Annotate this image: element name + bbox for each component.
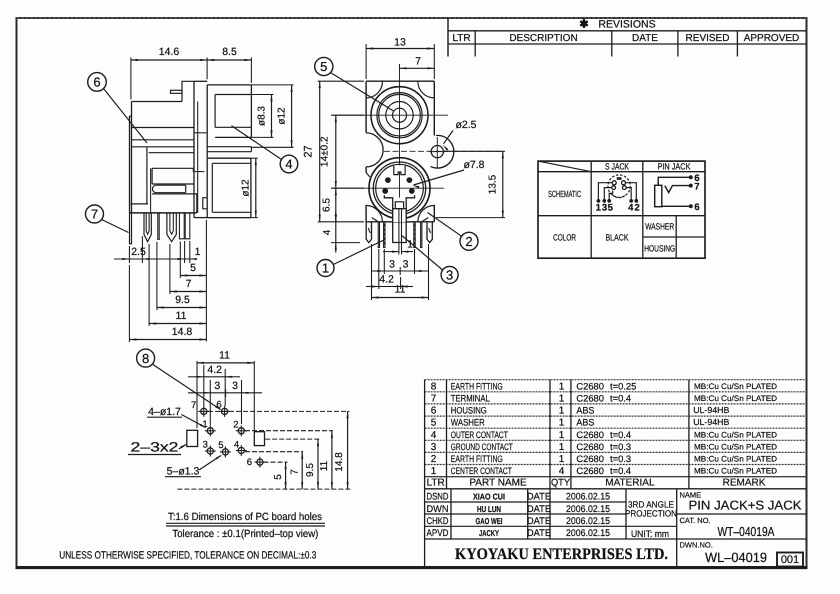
svg-text:5–ø1.3: 5–ø1.3 xyxy=(167,466,200,478)
svg-text:1: 1 xyxy=(195,246,201,258)
svg-text:LTR: LTR xyxy=(427,478,445,489)
svg-text:2006.02.15: 2006.02.15 xyxy=(566,516,610,527)
pcb dimension 7 vertical xyxy=(301,452,303,489)
svg-text:3: 3 xyxy=(203,439,208,450)
svg-text:4: 4 xyxy=(559,466,565,477)
S jack keyway mark xyxy=(617,177,622,180)
svg-text:4–ø1.7: 4–ø1.7 xyxy=(148,406,181,418)
svg-text:1: 1 xyxy=(202,419,207,430)
svg-text:C2680: C2680 xyxy=(576,429,604,440)
svg-text:DATE: DATE xyxy=(527,504,551,515)
S jack wires left xyxy=(598,183,612,201)
side view terminal pin xyxy=(171,90,183,93)
svg-text:4: 4 xyxy=(234,439,239,450)
svg-text:KYOYAKU ENTERPRISES LTD.: KYOYAKU ENTERPRISES LTD. xyxy=(455,546,668,563)
svg-text:REVISIONS: REVISIONS xyxy=(598,18,655,30)
svg-text:3: 3 xyxy=(403,259,409,271)
dimension 8.5 top xyxy=(250,58,252,83)
svg-text:2: 2 xyxy=(233,420,238,431)
pcb dimension 4.2 xyxy=(203,365,205,406)
svg-text:1: 1 xyxy=(559,454,565,465)
svg-text:DWN.NO.: DWN.NO. xyxy=(680,541,713,550)
S jack schematic mini-DIN circle xyxy=(608,175,630,197)
svg-text:4: 4 xyxy=(322,229,333,235)
S jack wires right xyxy=(626,183,637,201)
front view body outline xyxy=(366,80,434,82)
svg-text:C2680: C2680 xyxy=(576,453,604,464)
pin jack wire to pin 6 top xyxy=(658,177,690,185)
leader circle 4 xyxy=(280,155,298,173)
svg-text:DATE: DATE xyxy=(527,516,551,527)
pcb holes row 2 xyxy=(207,428,213,434)
dimension 9.5 xyxy=(156,242,158,310)
side view bottom dimension 2.5 and 1 xyxy=(128,246,130,263)
svg-text:2–3x2: 2–3x2 xyxy=(131,440,179,455)
svg-text:2006.02.15: 2006.02.15 xyxy=(566,504,610,515)
svg-text:11: 11 xyxy=(319,460,330,471)
svg-text:6: 6 xyxy=(247,457,252,468)
svg-text:5: 5 xyxy=(431,418,437,429)
side view washer plate xyxy=(207,146,251,148)
leader circle 3 xyxy=(441,266,458,283)
svg-text:JACKY: JACKY xyxy=(479,528,499,538)
svg-text:11: 11 xyxy=(395,284,406,296)
pcb holes top row xyxy=(201,408,207,414)
svg-text:SCHEMATIC: SCHEMATIC xyxy=(548,189,581,199)
svg-text:27: 27 xyxy=(303,145,315,157)
side view body bottom xyxy=(130,212,197,214)
svg-text:PROJECTION: PROJECTION xyxy=(625,509,677,519)
dimension 11 side xyxy=(148,244,150,326)
svg-text:1: 1 xyxy=(559,418,565,429)
front view center lines xyxy=(399,64,401,209)
svg-text:HOUSING: HOUSING xyxy=(644,243,675,253)
svg-text:3: 3 xyxy=(232,380,238,392)
svg-text:ABS: ABS xyxy=(576,417,594,428)
svg-text:C2680: C2680 xyxy=(576,441,604,452)
svg-text:4: 4 xyxy=(285,157,292,172)
pcb dimension 11 vertical xyxy=(331,431,333,489)
dimension 27 xyxy=(318,80,364,82)
svg-text:S JACK: S JACK xyxy=(605,161,629,171)
svg-text:6: 6 xyxy=(93,75,100,90)
svg-text:DATE: DATE xyxy=(632,33,658,44)
svg-text:UNLESS OTHERWISE SPECIFIED,: UNLESS OTHERWISE SPECIFIED, TOLERANCE ON… xyxy=(59,550,316,562)
svg-text:REVISED: REVISED xyxy=(686,33,730,44)
pcb view leader circle 8 xyxy=(137,349,155,367)
pcb dimension 3 3 xyxy=(209,380,211,425)
side view S jack barrel xyxy=(207,157,251,159)
svg-text:PIN JACK: PIN JACK xyxy=(658,161,691,171)
svg-text:COLOR: COLOR xyxy=(553,233,576,243)
svg-text:HOUSING: HOUSING xyxy=(451,405,487,416)
svg-text:DWN: DWN xyxy=(427,504,449,515)
svg-text:C2680: C2680 xyxy=(576,380,604,391)
pcb dimension 9.5 vertical xyxy=(317,439,319,489)
dimension 7 front xyxy=(399,64,401,70)
pin jack body rectangle xyxy=(655,185,662,206)
dimension 7 xyxy=(169,244,171,294)
svg-text:REMARK: REMARK xyxy=(723,478,766,489)
S video jack circles xyxy=(369,158,430,219)
svg-text:3: 3 xyxy=(389,259,395,271)
S video keyway notch top xyxy=(394,165,405,174)
svg-text:4.2: 4.2 xyxy=(207,364,222,376)
svg-text:3: 3 xyxy=(214,380,220,392)
dimension 13.5 xyxy=(444,150,506,152)
svg-text:HU LUN: HU LUN xyxy=(477,504,501,514)
side view legs xyxy=(130,213,132,244)
svg-text:ø12: ø12 xyxy=(241,179,252,197)
svg-text:1: 1 xyxy=(559,442,565,453)
svg-text:7: 7 xyxy=(415,56,421,68)
svg-text:14.8: 14.8 xyxy=(172,326,193,338)
svg-text:DESCRIPTION: DESCRIPTION xyxy=(509,33,577,44)
svg-text:7: 7 xyxy=(191,400,196,411)
svg-text:UL-94HB: UL-94HB xyxy=(693,417,729,427)
dimension 14.8 side xyxy=(128,265,130,342)
svg-text:4: 4 xyxy=(628,202,634,213)
svg-text:1: 1 xyxy=(431,466,437,477)
svg-text:1: 1 xyxy=(407,239,413,251)
S video bottom key slot xyxy=(393,198,406,222)
svg-text:14.6: 14.6 xyxy=(159,46,180,58)
revisions table xyxy=(447,18,449,57)
svg-text:MB:Cu Cu/Sn PLATED: MB:Cu Cu/Sn PLATED xyxy=(694,467,777,476)
svg-text:WL–04019: WL–04019 xyxy=(705,550,767,565)
leader circle 7 xyxy=(86,205,104,223)
svg-text:DATE: DATE xyxy=(527,528,551,539)
S video pins xyxy=(386,178,391,183)
RCA jack circles xyxy=(371,87,428,144)
svg-text:1: 1 xyxy=(559,381,565,392)
svg-text:9.5: 9.5 xyxy=(305,463,316,477)
svg-text:APPROVED: APPROVED xyxy=(744,33,800,44)
pcb hole 6 bottom xyxy=(257,459,263,465)
svg-text:1: 1 xyxy=(559,430,565,441)
svg-text:2: 2 xyxy=(431,454,437,465)
S jack pins xyxy=(612,181,616,185)
svg-text:MB:Cu Cu/Sn PLATED: MB:Cu Cu/Sn PLATED xyxy=(694,430,777,439)
svg-text:13.5: 13.5 xyxy=(488,174,499,194)
svg-text:7: 7 xyxy=(431,393,437,404)
svg-text:5: 5 xyxy=(320,59,327,74)
svg-text:5: 5 xyxy=(190,262,196,274)
svg-text:MB:Cu Cu/Sn PLATED: MB:Cu Cu/Sn PLATED xyxy=(694,382,777,391)
svg-text:TERMINAL: TERMINAL xyxy=(451,392,490,403)
svg-text:1: 1 xyxy=(322,261,329,276)
dimension dia 12 lower xyxy=(251,157,258,159)
pcb dimension 14.8 vertical xyxy=(347,411,349,489)
svg-text:MB:Cu Cu/Sn PLATED: MB:Cu Cu/Sn PLATED xyxy=(694,455,777,464)
dimension 14.6 top xyxy=(130,58,132,100)
svg-text:WT–04019A: WT–04019A xyxy=(718,524,775,539)
svg-text:2006.02.15: 2006.02.15 xyxy=(566,528,610,539)
svg-text:DSND: DSND xyxy=(427,492,449,503)
front view earth tab leg xyxy=(378,222,379,248)
svg-text:CENTER CONTACT: CENTER CONTACT xyxy=(451,465,512,476)
side view body outline xyxy=(132,101,183,103)
svg-text:1: 1 xyxy=(559,393,565,404)
svg-text:13: 13 xyxy=(394,37,406,49)
svg-text:C2680: C2680 xyxy=(576,465,604,476)
svg-text:1: 1 xyxy=(596,202,602,213)
svg-text:2: 2 xyxy=(635,202,640,213)
svg-text:t=0.25: t=0.25 xyxy=(610,380,636,391)
svg-text:CHKD: CHKD xyxy=(427,516,449,527)
svg-text:2: 2 xyxy=(465,234,472,249)
svg-text:MB:Cu Cu/Sn PLATED: MB:Cu Cu/Sn PLATED xyxy=(694,394,777,403)
side view RCA barrel xyxy=(207,84,251,86)
side view inner terminal with round end xyxy=(156,184,186,186)
svg-text:OUTER CONTACT: OUTER CONTACT xyxy=(451,429,508,440)
sheet number box xyxy=(777,553,803,567)
svg-text:t=0.3: t=0.3 xyxy=(610,441,631,452)
svg-text:7: 7 xyxy=(186,278,192,290)
parts list table xyxy=(425,379,806,381)
svg-text:BLACK: BLACK xyxy=(606,233,629,243)
svg-text:t=0.3: t=0.3 xyxy=(610,453,631,464)
side view housing flange xyxy=(129,116,131,213)
mounting hole dia 2.5 with boss xyxy=(430,135,453,168)
side view top tab xyxy=(182,81,194,101)
svg-text:3: 3 xyxy=(602,202,607,213)
pin jack terminal dots xyxy=(689,176,692,179)
front view shield skirt wedges xyxy=(372,218,378,222)
svg-text:5: 5 xyxy=(608,202,614,213)
svg-text:5: 5 xyxy=(273,474,284,480)
svg-text:CAT. NO.: CAT. NO. xyxy=(680,516,711,525)
svg-text:✱: ✱ xyxy=(579,19,588,31)
pcb dimension 11 top xyxy=(196,361,198,428)
pin jack switch contact V xyxy=(665,186,691,193)
svg-text:7: 7 xyxy=(91,207,98,222)
svg-text:6: 6 xyxy=(694,202,699,213)
svg-text:1: 1 xyxy=(559,406,565,417)
front view center leg xyxy=(393,222,407,243)
leader circle 5 xyxy=(315,57,333,75)
svg-text:C2680: C2680 xyxy=(576,392,604,403)
front bottom dimension 11 xyxy=(371,244,373,300)
svg-text:XIAO CUI: XIAO CUI xyxy=(473,492,505,502)
front view corner relief arcs xyxy=(366,81,382,98)
diagonal in corner cell xyxy=(538,161,591,172)
svg-text:MATERIAL: MATERIAL xyxy=(605,478,655,489)
front bottom dimension 3 3 xyxy=(383,249,385,274)
svg-text:5: 5 xyxy=(218,440,223,451)
svg-text:ø12: ø12 xyxy=(277,107,288,125)
side view bracket notch xyxy=(203,198,207,209)
svg-text:T:1.6 Dimensions of PC boa: T:1.6 Dimensions of PC board holes xyxy=(168,511,322,523)
dimension 14 plus minus 0.2 xyxy=(331,114,364,116)
svg-text:14±0.2: 14±0.2 xyxy=(320,136,331,167)
svg-text:UL-94HB: UL-94HB xyxy=(693,405,729,415)
S jack terminal dots xyxy=(597,200,600,203)
dimension 13 xyxy=(365,44,367,79)
jack schematic table xyxy=(538,161,705,258)
front view pin legs xyxy=(384,222,385,248)
svg-text:8: 8 xyxy=(431,381,437,392)
leader circle 1 front xyxy=(317,260,334,277)
leader circle 2 xyxy=(460,232,478,250)
svg-text:QTY: QTY xyxy=(551,478,571,489)
dimension 5 xyxy=(179,242,181,279)
side view body internal lines xyxy=(132,127,195,129)
svg-text:6: 6 xyxy=(431,406,437,417)
svg-text:ABS: ABS xyxy=(576,405,594,416)
svg-text:t=0.4: t=0.4 xyxy=(610,392,631,403)
svg-text:3: 3 xyxy=(446,268,453,283)
svg-text:WASHER: WASHER xyxy=(451,417,485,428)
side view inner contact box xyxy=(152,167,193,169)
svg-text:GROUND CONTACT: GROUND CONTACT xyxy=(451,441,513,452)
title block grid xyxy=(425,501,626,503)
svg-text:9.5: 9.5 xyxy=(175,294,190,306)
svg-text:4: 4 xyxy=(431,430,437,441)
svg-text:11: 11 xyxy=(219,350,230,362)
svg-text:14.8: 14.8 xyxy=(334,452,345,472)
side view lower cavity xyxy=(151,194,153,213)
svg-text:ø8.3: ø8.3 xyxy=(257,106,268,126)
svg-text:2.5: 2.5 xyxy=(131,246,146,258)
pin jack wire to pin 6 bottom xyxy=(662,205,691,207)
svg-text:2006.02.15: 2006.02.15 xyxy=(566,492,610,503)
svg-text:UNIT: mm: UNIT: mm xyxy=(631,529,669,540)
svg-text:t=0.4: t=0.4 xyxy=(610,465,631,476)
svg-text:3: 3 xyxy=(431,442,437,453)
svg-text:001: 001 xyxy=(781,554,799,566)
svg-text:Tolerance : ±0.1(Printed–top v: Tolerance : ±0.1(Printed–top view) xyxy=(172,528,318,540)
svg-text:MB:Cu Cu/Sn PLATED: MB:Cu Cu/Sn PLATED xyxy=(694,442,777,451)
leader circle 6 xyxy=(88,73,107,92)
svg-text:APVD: APVD xyxy=(427,528,449,539)
svg-text:7: 7 xyxy=(694,181,699,192)
svg-text:EARTH FITTING: EARTH FITTING xyxy=(451,453,503,464)
svg-text:PART NAME: PART NAME xyxy=(469,478,527,489)
front view right bracket leg xyxy=(427,222,432,243)
pcb reference lines right xyxy=(208,410,349,412)
dimension dia 12 upper xyxy=(251,84,293,86)
dimension 6.5 xyxy=(335,188,337,222)
pcb dimension 5 vertical xyxy=(285,462,287,489)
front view legs xyxy=(366,222,371,243)
svg-text:7: 7 xyxy=(290,469,301,475)
svg-text:11: 11 xyxy=(176,310,187,322)
svg-text:6.5: 6.5 xyxy=(322,198,333,212)
svg-text:PIN JACK+S JACK: PIN JACK+S JACK xyxy=(689,498,802,513)
svg-text:DATE: DATE xyxy=(527,492,551,503)
svg-text:8: 8 xyxy=(142,351,149,366)
front bottom dimension 4.2 xyxy=(378,249,380,289)
svg-text:4.2: 4.2 xyxy=(379,274,394,286)
svg-text:6: 6 xyxy=(216,400,221,411)
dimension dia 8.3 xyxy=(251,94,273,96)
svg-text:LTR: LTR xyxy=(452,33,470,44)
svg-text:ø2.5: ø2.5 xyxy=(455,119,476,131)
svg-text:ø7.8: ø7.8 xyxy=(463,159,484,171)
pcb slot holes 3x2 xyxy=(187,430,198,446)
front bottom dimension 1 xyxy=(383,251,399,253)
dimension 4 xyxy=(331,242,360,244)
svg-text:8.5: 8.5 xyxy=(222,46,237,58)
svg-text:GAO WEI: GAO WEI xyxy=(476,516,503,526)
svg-text:EARTH FITTING: EARTH FITTING xyxy=(451,380,503,391)
svg-text:WASHER: WASHER xyxy=(645,222,674,232)
svg-text:t=0.4: t=0.4 xyxy=(610,429,631,440)
pcb holes row 3 xyxy=(207,448,213,454)
